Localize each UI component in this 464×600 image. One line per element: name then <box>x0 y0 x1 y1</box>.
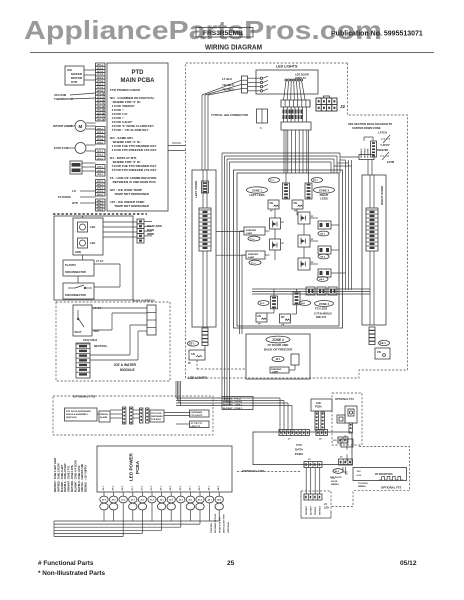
svg-text:CN: CN <box>293 201 297 205</box>
svg-text:DISPENSER: DISPENSER <box>151 416 163 418</box>
svg-text:LT. BLU: LT. BLU <box>222 77 232 81</box>
svg-text:TWISTED: TWISTED <box>211 523 213 533</box>
svg-text:CN: CN <box>191 352 195 356</box>
svg-text:CN: CN <box>377 350 381 354</box>
svg-text:ZONE 4: ZONE 4 <box>272 338 284 342</box>
svg-text:M: M <box>79 124 83 129</box>
svg-text:OPTIONAL: OPTIONAL <box>227 521 230 533</box>
svg-text:LED: LED <box>90 225 95 229</box>
svg-text:FRS3R5EMB: FRS3R5EMB <box>203 30 243 37</box>
svg-text:LED LIGHTS: LED LIGHTS <box>276 64 298 68</box>
svg-text:WIRING: WIRING <box>331 484 339 486</box>
svg-text:LED LIGHTS: LED LIGHTS <box>188 376 207 380</box>
svg-text:DATA: DATA <box>295 448 304 452</box>
svg-text:7 FOR ‘-’ UP ALARM KEY: 7 FOR ‘-’ UP ALARM KEY <box>110 128 149 132</box>
svg-text:FROM FTD LTS: FROM FTD LTS <box>219 517 221 533</box>
svg-text:TEMP NOT DISPENSED: TEMP NOT DISPENSED <box>110 192 150 196</box>
svg-text:RT-1: RT-1 <box>313 180 319 182</box>
svg-text:GE-1: GE-1 <box>320 234 326 236</box>
svg-text:ORN/BLK: ORN/BLK <box>361 148 363 158</box>
svg-text:PCB ASSY: PCB ASSY <box>151 418 162 421</box>
svg-text:JP5-5: JP5-5 <box>97 194 104 196</box>
svg-text:41-3: 41-3 <box>150 485 153 490</box>
svg-text:41-1: 41-1 <box>131 485 134 490</box>
svg-text:LEDS FT3: LEDS FT3 <box>191 426 201 428</box>
svg-text:CN: CN <box>281 315 285 319</box>
svg-text:Publication No. 5995513071: Publication No. 5995513071 <box>331 31 423 38</box>
svg-text:41-2: 41-2 <box>140 485 143 490</box>
svg-text:LATCH: LATCH <box>378 131 387 135</box>
svg-text:PCBA: PCBA <box>135 460 140 474</box>
svg-text:WIRING: WIRING <box>358 486 366 488</box>
svg-text:WHT/BLU - ZONE 4 RTN: WHT/BLU - ZONE 4 RTN <box>78 465 81 492</box>
svg-text:43-1: 43-1 <box>188 485 191 490</box>
svg-text:YEL/GRN: YEL/GRN <box>368 148 370 158</box>
svg-text:OPTIONAL FTE: OPTIONAL FTE <box>381 486 402 490</box>
svg-text:LAMP: LAMP <box>246 232 253 235</box>
svg-text:MODULE ASSEMBLY: MODULE ASSEMBLY <box>66 413 88 416</box>
svg-text:JP2-5: JP2-5 <box>97 142 104 144</box>
svg-text:+12V: +12V <box>356 475 362 477</box>
svg-text:ALARM: ALARM <box>100 416 108 419</box>
svg-text:ZONE 3: ZONE 3 <box>319 302 330 306</box>
svg-text:(DISPLAY): (DISPLAY) <box>66 416 77 419</box>
svg-text:JP4-3: JP4-3 <box>97 173 104 176</box>
svg-text:CENTER DOWN ZONE: CENTER DOWN ZONE <box>352 126 381 130</box>
svg-text:LEFT LEDS: LEFT LEDS <box>249 193 264 197</box>
svg-text:PCBA: PCBA <box>315 406 322 409</box>
svg-text:05/12: 05/12 <box>400 560 417 567</box>
svg-text:RIGHT DOOR: RIGHT DOOR <box>380 185 384 205</box>
svg-text:DISCONNECTOR: DISCONNECTOR <box>65 293 86 297</box>
svg-text:LED: LED <box>90 241 95 245</box>
svg-text:FREEZER: FREEZER <box>246 230 257 232</box>
svg-text:FTD: FTD <box>331 478 336 480</box>
svg-text:* Non-Illustrated Parts: * Non-Illustrated Parts <box>38 570 106 577</box>
svg-text:FT3: FT3 <box>296 443 302 447</box>
svg-text:40-2: 40-2 <box>112 485 115 490</box>
svg-text:(WHT) LIGHT RTN: (WHT) LIGHT RTN <box>224 514 226 533</box>
svg-text:LEFT DOOR: LEFT DOOR <box>194 180 198 198</box>
svg-text:JP3-3: JP3-3 <box>97 158 104 160</box>
svg-text:OPTIONAL FTD: OPTIONAL FTD <box>242 469 265 473</box>
svg-text:T1-2: T1-2 <box>250 239 255 241</box>
svg-text:HTR: HTR <box>72 201 78 205</box>
svg-text:LED: LED <box>324 507 329 510</box>
svg-text:40-1: 40-1 <box>102 485 105 490</box>
svg-text:OPTIONAL FTD: OPTIONAL FTD <box>73 395 96 399</box>
svg-text:J2: J2 <box>340 104 346 109</box>
svg-text:FTD POWER CHECK: FTD POWER CHECK <box>110 88 141 92</box>
svg-text:FF DOOR AND: FF DOOR AND <box>268 343 290 347</box>
svg-text:TO DOOR: TO DOOR <box>358 483 368 485</box>
svg-text:5 FOR FTD FREEZER LTS KEY: 5 FOR FTD FREEZER LTS KEY <box>110 168 158 172</box>
svg-text:22-2: 22-2 <box>260 303 265 305</box>
svg-text:TEMP NOT DISPENSED: TEMP NOT DISPENSED <box>110 204 150 208</box>
svg-text:ORN/BLK - FTD LT: ORN/BLK - FTD LT <box>223 398 242 400</box>
svg-text:WHT: WHT <box>94 329 100 333</box>
svg-text:WIRING DIAGRAM: WIRING DIAGRAM <box>205 43 262 52</box>
svg-text:FTD DOOR: FTD DOOR <box>151 413 162 415</box>
svg-text:WHT/RED - ZONE 1 RIGHT: WHT/RED - ZONE 1 RIGHT <box>58 463 60 492</box>
svg-text:44-1: 44-1 <box>208 485 211 490</box>
svg-text:GE-4: GE-4 <box>380 342 386 345</box>
svg-text:BLK/WHT - ZONE 2 LEFT: BLK/WHT - ZONE 2 LEFT <box>62 464 64 492</box>
svg-text:24-1: 24-1 <box>301 302 306 305</box>
svg-text:RDH FT3: RDH FT3 <box>316 316 327 319</box>
svg-text:FT3 LEDS: FT3 LEDS <box>315 307 328 311</box>
svg-text:GE-1: GE-1 <box>189 343 195 346</box>
svg-text:EATM: EATM <box>387 160 394 164</box>
svg-text:36-1: 36-1 <box>276 358 281 361</box>
svg-text:BACK OF FREEZER: BACK OF FREEZER <box>264 348 293 352</box>
svg-text:120V 60HZ: 120V 60HZ <box>83 338 97 342</box>
svg-text:T1-3: T1-3 <box>251 263 256 265</box>
svg-text:LED POWER: LED POWER <box>129 452 134 481</box>
svg-text:SHUT: SHUT <box>75 330 82 334</box>
svg-text:42-1: 42-1 <box>160 485 163 490</box>
svg-text:40-3: 40-3 <box>121 485 124 490</box>
svg-text:FF DOOR: FF DOOR <box>58 195 71 199</box>
svg-text:42-2: 42-2 <box>169 485 172 490</box>
svg-text:RED/BLK - +12V SUPPLY: RED/BLK - +12V SUPPLY <box>86 464 88 492</box>
svg-text:BETWEEN UI AND MAIN PCB: BETWEEN UI AND MAIN PCB <box>110 180 156 184</box>
svg-text:OPTIONAL FT3: OPTIONAL FT3 <box>335 397 354 401</box>
svg-text:JP1-18: JP1-18 <box>97 119 105 121</box>
svg-text:# Functional Parts: # Functional Parts <box>38 560 94 567</box>
svg-text:LED DOOR: LED DOOR <box>295 73 309 77</box>
svg-text:LT GY: LT GY <box>96 259 104 263</box>
svg-text:PLASTIC: PLASTIC <box>65 263 76 267</box>
svg-text:EVAP FAN: EVAP FAN <box>54 146 68 150</box>
svg-text:TYPICAL LED CONNECTOR: TYPICAL LED CONNECTOR <box>211 113 248 117</box>
svg-text:WHT/RED 120V AC: WHT/RED 120V AC <box>214 513 217 533</box>
svg-text:SEE SECTION PAGE DIAGRAM TO: SEE SECTION PAGE DIAGRAM TO <box>348 122 392 126</box>
svg-text:WHT/RED - FTD RT: WHT/RED - FTD RT <box>223 402 243 404</box>
svg-text:FREEZER: FREEZER <box>248 254 259 256</box>
svg-text:GE-2: GE-2 <box>320 257 326 259</box>
svg-text:25: 25 <box>227 560 235 567</box>
svg-text:RED/WHT - ZONE 2: RED/WHT - ZONE 2 <box>223 405 243 407</box>
svg-text:PTD: PTD <box>132 70 145 76</box>
svg-text:WHT/RED: WHT/RED <box>364 148 366 158</box>
svg-text:44-2: 44-2 <box>217 485 220 490</box>
svg-text:-12V: -12V <box>356 471 361 473</box>
svg-text:DISPENSER: DISPENSER <box>191 412 203 414</box>
svg-text:NEUTRAL: NEUTRAL <box>94 344 108 348</box>
svg-text:RED/WHT - ZONE 1 LEFT LEDS: RED/WHT - ZONE 1 LEFT LEDS <box>55 457 57 492</box>
svg-text:BLU/WHT - ZONE 4 FF DOOR: BLU/WHT - ZONE 4 FF DOOR <box>74 460 77 492</box>
svg-text:42-3: 42-3 <box>179 485 182 490</box>
svg-text:2 FOR FTD FREEZER LTS KEY: 2 FOR FTD FREEZER LTS KEY <box>110 148 158 152</box>
svg-text:MAIN HARNESS: MAIN HARNESS <box>133 299 155 303</box>
svg-text:MAIN PCBA: MAIN PCBA <box>121 78 156 84</box>
svg-text:LEDS: LEDS <box>320 197 328 201</box>
svg-text:ZONE 2: ZONE 2 <box>319 189 330 193</box>
svg-text:GRN: GRN <box>75 250 81 254</box>
svg-text:MODULE: MODULE <box>120 368 135 372</box>
svg-text:T1-1: T1-1 <box>270 180 275 182</box>
svg-text:LAMP: LAMP <box>272 371 279 374</box>
svg-text:FTD DOOR DISPENSER: FTD DOOR DISPENSER <box>66 411 91 413</box>
svg-text:GRN/YEL - CHASSIS GND: GRN/YEL - CHASSIS GND <box>81 463 84 492</box>
svg-text:ORN/WHT - ZONE 3 FT3: ORN/WHT - ZONE 3 FT3 <box>69 465 71 492</box>
svg-text:WHT/BLK - ZONE 2 RIGHT: WHT/BLK - ZONE 2 RIGHT <box>65 463 67 492</box>
svg-text:46-2: 46-2 <box>335 470 340 473</box>
svg-text:JP6-4: JP6-4 <box>97 208 104 211</box>
svg-text:CN: CN <box>269 201 273 205</box>
svg-text:GE-3: GE-3 <box>319 279 325 281</box>
svg-text:FTD LIGHTS: FTD LIGHTS <box>191 415 203 417</box>
svg-text:DISCONNECTOR: DISCONNECTOR <box>65 270 86 274</box>
svg-text:RED/WHT: RED/WHT <box>306 505 308 515</box>
svg-text:BLK/WHT - ZONE 3: BLK/WHT - ZONE 3 <box>223 408 243 410</box>
svg-text:PCBA: PCBA <box>295 452 304 456</box>
svg-text:FREEZER: FREEZER <box>377 149 388 152</box>
svg-text:FB RESISTORS: FB RESISTORS <box>375 473 393 476</box>
svg-text:43-2: 43-2 <box>198 485 201 490</box>
svg-text:WHT/ORN - ZONE 3 RTN: WHT/ORN - ZONE 3 RTN <box>72 465 74 492</box>
svg-text:HTR: HTR <box>71 80 78 84</box>
svg-text:BLK/WHT: BLK/WHT <box>311 505 313 515</box>
svg-text:ZONE 1: ZONE 1 <box>252 189 263 193</box>
svg-text:DOOR: DOOR <box>331 481 338 483</box>
svg-text:PERSNL: PERSNL <box>100 414 109 416</box>
svg-text:ICE & WATER: ICE & WATER <box>114 363 137 367</box>
svg-text:WIRE: WIRE <box>147 232 154 236</box>
svg-text:TO TOP FT3: TO TOP FT3 <box>191 423 203 425</box>
svg-text:CN: CN <box>257 314 261 318</box>
svg-text:WHT/BLK: WHT/BLK <box>320 505 322 515</box>
svg-text:LAMP: LAMP <box>248 256 255 259</box>
svg-text:"LATCH": "LATCH" <box>380 144 390 147</box>
svg-text:GRN/YEL: GRN/YEL <box>315 505 317 515</box>
